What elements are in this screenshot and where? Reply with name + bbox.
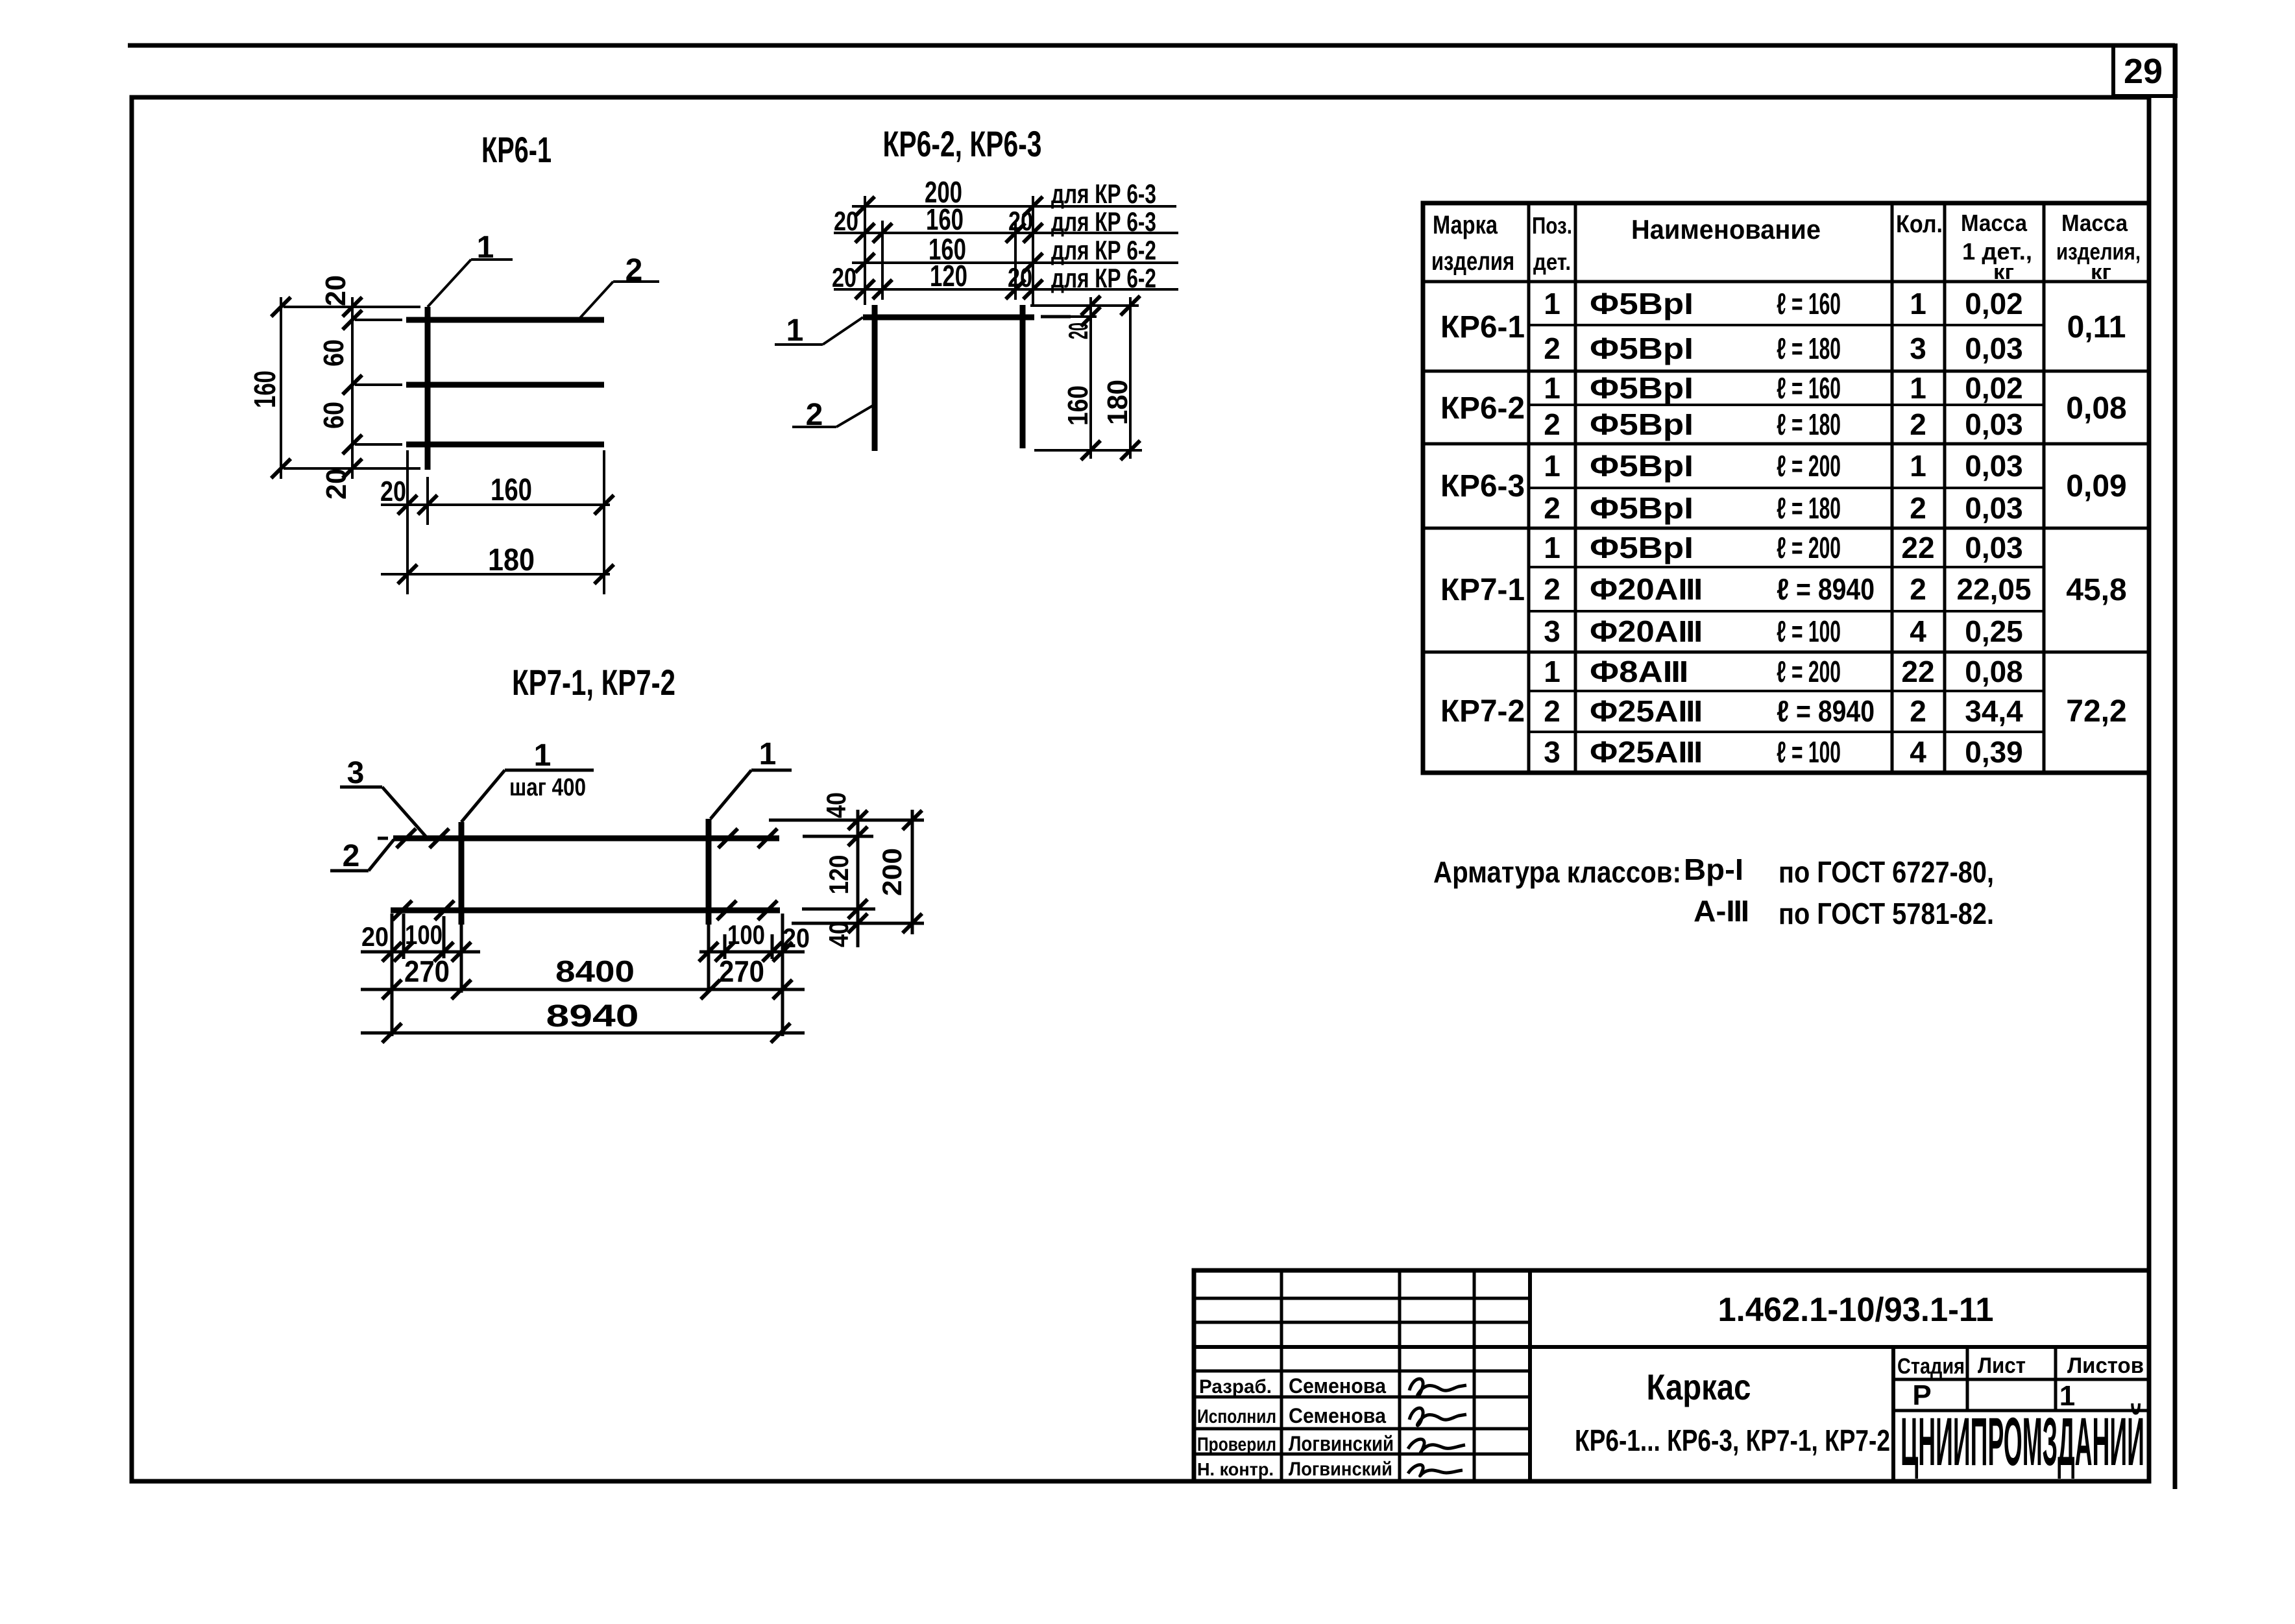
svg-text:Ф25АIII: Ф25АIII <box>1590 735 1701 769</box>
svg-text:0,39: 0,39 <box>1965 735 2023 769</box>
KR6-23 dim extension verticals <box>864 196 866 305</box>
KR6-23 bar pos.2 left vertical wire <box>872 305 878 451</box>
svg-text:0,03: 0,03 <box>1965 449 2023 483</box>
svg-text:0,03: 0,03 <box>1965 407 2023 441</box>
svg-text:2: 2 <box>343 839 360 873</box>
svg-text:0,25: 0,25 <box>1965 614 2023 648</box>
title block vertical lines <box>1280 1270 1283 1481</box>
sheet outer right border line <box>2173 45 2178 1489</box>
svg-text:Наименование: Наименование <box>1631 214 1821 245</box>
svg-text:кг: кг <box>2091 260 2111 284</box>
svg-text:60: 60 <box>318 402 350 429</box>
KR7 top bar pos.2 <box>378 837 388 840</box>
svg-text:2: 2 <box>1910 694 1926 728</box>
svg-text:40: 40 <box>823 921 854 947</box>
svg-text:Ф5ВрI: Ф5ВрI <box>1590 332 1694 365</box>
svg-text:3: 3 <box>347 756 365 790</box>
svg-text:20: 20 <box>320 275 352 306</box>
svg-text:270: 270 <box>404 954 450 988</box>
svg-text:Ф5ВрI: Ф5ВрI <box>1590 407 1694 441</box>
svg-text:ℓ = 160: ℓ = 160 <box>1777 287 1841 321</box>
svg-text:200: 200 <box>877 848 907 896</box>
svg-text:180: 180 <box>1102 380 1134 425</box>
svg-text:1: 1 <box>1544 655 1560 688</box>
KR7 right stirrup pos.1 <box>706 819 712 925</box>
svg-text:20: 20 <box>1063 322 1093 339</box>
svg-text:Листов: Листов <box>2067 1353 2144 1378</box>
svg-text:0,03: 0,03 <box>1965 531 2023 564</box>
svg-text:2: 2 <box>1544 491 1560 525</box>
svg-text:0,09: 0,09 <box>2066 469 2126 503</box>
KR6-23 dim row 20/120/20 <box>834 288 1178 291</box>
svg-text:Лист: Лист <box>1978 1353 2026 1378</box>
svg-text:ℓ = 200: ℓ = 200 <box>1777 531 1841 564</box>
svg-text:0,11: 0,11 <box>2067 310 2126 345</box>
svg-text:Разраб.: Разраб. <box>1199 1376 1272 1398</box>
svg-text:Ф5ВрI: Ф5ВрI <box>1590 449 1694 483</box>
svg-text:20: 20 <box>361 921 389 952</box>
svg-text:А-III: А-III <box>1694 894 1748 928</box>
svg-text:2: 2 <box>1544 407 1560 441</box>
svg-text:ЦНИИПРОМЗДАНИЙ: ЦНИИПРОМЗДАНИЙ <box>1900 1402 2144 1479</box>
svg-text:Ф20АIII: Ф20АIII <box>1590 572 1701 606</box>
drawing frame <box>132 97 2149 1481</box>
svg-text:ℓ = 8940: ℓ = 8940 <box>1777 694 1875 728</box>
svg-text:4: 4 <box>1910 735 1926 769</box>
svg-text:для КР 6-2: для КР 6-2 <box>1051 263 1156 293</box>
svg-text:20: 20 <box>380 476 406 507</box>
sheet top border line <box>128 43 2175 48</box>
title block main horizontal divider <box>1194 1345 2149 1349</box>
svg-text:1: 1 <box>1544 371 1560 405</box>
svg-text:2: 2 <box>1544 694 1560 728</box>
svg-text:120: 120 <box>823 855 854 895</box>
svg-text:Ф5ВрI: Ф5ВрI <box>1590 371 1694 405</box>
svg-text:100: 100 <box>727 919 765 950</box>
KR6-23 leader 2 line <box>792 426 836 428</box>
svg-text:2: 2 <box>1544 332 1560 365</box>
KR7 chain dimension 40/120/40 vertical <box>856 810 860 947</box>
svg-text:180: 180 <box>488 543 535 577</box>
title block stage header lines <box>1893 1378 2149 1381</box>
svg-text:0,08: 0,08 <box>1965 655 2023 688</box>
signature Proveril <box>1408 1439 1465 1452</box>
svg-text:ℓ = 8940: ℓ = 8940 <box>1777 572 1875 606</box>
svg-text:ℓ = 100: ℓ = 100 <box>1777 614 1841 648</box>
KR7 overall dimension 8940 horizontal <box>361 1032 805 1035</box>
svg-text:3: 3 <box>1544 614 1560 648</box>
KR6-1 overall dimension 160 vertical <box>280 297 282 479</box>
svg-text:20: 20 <box>1008 206 1033 236</box>
table sub-row lines <box>1529 324 2044 326</box>
svg-text:Ф25АIII: Ф25АIII <box>1590 694 1701 728</box>
svg-text:270: 270 <box>719 954 764 988</box>
KR6-23 right extension lines <box>1030 304 1139 307</box>
table column lines <box>1527 203 1531 773</box>
svg-text:8940: 8940 <box>546 999 639 1034</box>
KR6-23 bar pos.1 horizontal wire <box>863 315 1034 321</box>
svg-text:КР7-2: КР7-2 <box>1440 694 1525 729</box>
KR6-23 dim row 200 <box>852 205 1176 208</box>
KR7 bottom extension lines <box>391 914 394 1036</box>
title block outer border <box>1194 1270 2149 1481</box>
svg-text:шаг 400: шаг 400 <box>509 774 586 801</box>
svg-text:1: 1 <box>1544 531 1560 564</box>
svg-text:1: 1 <box>786 313 804 348</box>
svg-text:ℓ = 180: ℓ = 180 <box>1777 407 1841 441</box>
KR6-1 dimension 20/160 horizontal <box>381 503 610 506</box>
svg-text:Ф8АIII: Ф8АIII <box>1590 655 1687 688</box>
svg-text:Арматура классов:: Арматура классов: <box>1433 855 1681 889</box>
KR7 dimension 270/8400/270 horizontal <box>361 988 805 991</box>
KR6-23 leader 1 line <box>775 343 823 346</box>
svg-text:0,03: 0,03 <box>1965 491 2023 525</box>
svg-text:0,08: 0,08 <box>2066 391 2126 426</box>
svg-text:160: 160 <box>926 202 964 236</box>
svg-text:2: 2 <box>1544 572 1560 606</box>
KR7 left leader 1 line <box>505 769 594 772</box>
KR7 bottom bar pos.2 <box>391 908 780 914</box>
KR6-23 bar pos.2 right vertical wire <box>1020 305 1026 448</box>
KR6-1 leader 2 line <box>579 282 613 319</box>
svg-text:20: 20 <box>834 206 858 236</box>
svg-text:по ГОСТ 5781-82.: по ГОСТ 5781-82. <box>1779 897 1994 930</box>
svg-text:0,02: 0,02 <box>1965 371 2023 405</box>
svg-text:КР7-1, КР7-2: КР7-1, КР7-2 <box>512 662 675 703</box>
svg-text:Ф5ВрI: Ф5ВрI <box>1590 531 1694 564</box>
svg-text:0,02: 0,02 <box>1965 287 2023 321</box>
table outer border <box>1423 203 2149 773</box>
svg-text:КР6-2, КР6-3: КР6-2, КР6-3 <box>883 123 1042 164</box>
signature Razrab <box>1409 1379 1466 1396</box>
svg-text:Поз.: Поз. <box>1532 212 1572 239</box>
svg-text:Ф5ВрI: Ф5ВрI <box>1590 287 1694 321</box>
KR6-1 dimension 180 horizontal <box>381 573 610 576</box>
KR7 dimension 20/100 + 100/20 horizontal <box>361 951 480 954</box>
svg-text:40: 40 <box>821 792 851 818</box>
svg-text:160: 160 <box>491 473 532 507</box>
svg-text:1: 1 <box>1910 287 1926 321</box>
svg-text:Масса: Масса <box>2061 210 2128 236</box>
svg-text:1.462.1-10/93.1-11: 1.462.1-10/93.1-11 <box>1718 1291 1994 1329</box>
KR6-23 dim row 20/160/20 <box>834 232 1178 234</box>
svg-text:0,03: 0,03 <box>1965 332 2023 365</box>
svg-text:дет.: дет. <box>1533 248 1571 275</box>
svg-text:34,4: 34,4 <box>1965 694 2023 728</box>
svg-text:кг: кг <box>1993 260 2014 284</box>
svg-text:КР6-1: КР6-1 <box>1440 310 1525 345</box>
svg-text:Н. контр.: Н. контр. <box>1197 1459 1274 1479</box>
svg-text:КР6-1... КР6-3, КР7-1, КР7-2: КР6-1... КР6-3, КР7-1, КР7-2 <box>1575 1424 1890 1457</box>
svg-text:29: 29 <box>2124 52 2163 91</box>
svg-text:2: 2 <box>1910 572 1926 606</box>
svg-text:ℓ = 160: ℓ = 160 <box>1777 371 1841 405</box>
svg-text:100: 100 <box>405 919 443 950</box>
svg-text:160: 160 <box>1062 385 1094 426</box>
KR6-1 bars pos.2 horizontal wires <box>406 317 604 323</box>
svg-text:60: 60 <box>318 339 350 367</box>
svg-text:1: 1 <box>534 738 552 773</box>
KR6-1 bottom extension lines <box>406 450 409 594</box>
svg-text:Ф5ВрI: Ф5ВрI <box>1590 491 1694 525</box>
sheet number box <box>2113 45 2176 96</box>
KR7 left stirrup pos.1 <box>459 822 465 925</box>
title block left part row lines <box>1194 1297 1530 1300</box>
svg-text:1: 1 <box>759 737 777 771</box>
svg-text:для КР 6-3: для КР 6-3 <box>1051 178 1156 209</box>
svg-text:КР6-2: КР6-2 <box>1440 391 1525 426</box>
KR6-23 overall dimension 180 vertical <box>1129 297 1132 459</box>
KR6-1 bar pos.1 vertical wire <box>425 307 431 470</box>
svg-text:22: 22 <box>1901 655 1934 688</box>
svg-text:Марка: Марка <box>1433 211 1498 239</box>
svg-text:20: 20 <box>321 468 352 500</box>
svg-text:1: 1 <box>1544 449 1560 483</box>
svg-text:2: 2 <box>1910 491 1926 525</box>
svg-text:22,05: 22,05 <box>1956 572 2031 606</box>
svg-text:2: 2 <box>1910 407 1926 441</box>
svg-text:120: 120 <box>930 259 967 293</box>
svg-text:Логвинский: Логвинский <box>1289 1432 1394 1455</box>
svg-text:ℓ = 100: ℓ = 100 <box>1777 735 1841 769</box>
svg-text:ℓ = 200: ℓ = 200 <box>1777 449 1841 483</box>
svg-text:Проверил: Проверил <box>1197 1434 1276 1455</box>
svg-text:Исполнил: Исполнил <box>1197 1406 1276 1427</box>
svg-text:КР6-1: КР6-1 <box>481 129 552 170</box>
svg-text:4: 4 <box>1910 614 1926 648</box>
svg-text:20: 20 <box>832 262 856 293</box>
KR6-23 chain dimension 20/160 vertical <box>1089 297 1092 459</box>
svg-text:1: 1 <box>1910 449 1926 483</box>
svg-text:для КР 6-2: для КР 6-2 <box>1051 235 1156 265</box>
KR7 overall dimension 200 vertical <box>911 810 914 934</box>
KR7 right extension lines <box>769 819 924 822</box>
KR7 leader 2 line <box>330 869 369 873</box>
signature Nkontr <box>1408 1465 1463 1476</box>
svg-text:ℓ = 180: ℓ = 180 <box>1777 332 1841 365</box>
svg-text:Каркас: Каркас <box>1647 1366 1751 1407</box>
svg-text:КР7-1: КР7-1 <box>1440 573 1525 607</box>
svg-text:изделия: изделия <box>1431 247 1514 276</box>
svg-text:Вр-I: Вр-I <box>1684 853 1743 886</box>
svg-text:1: 1 <box>1544 287 1560 321</box>
svg-text:72,2: 72,2 <box>2066 694 2126 729</box>
KR7 right leader 1 line <box>751 769 792 772</box>
svg-text:1: 1 <box>1910 371 1926 405</box>
svg-text:Стадия: Стадия <box>1897 1354 1965 1379</box>
svg-text:Семенова: Семенова <box>1289 1404 1386 1427</box>
svg-text:3: 3 <box>1544 735 1560 769</box>
svg-text:20: 20 <box>1008 262 1032 293</box>
signature Ispolnil <box>1409 1408 1466 1425</box>
svg-text:3: 3 <box>1910 332 1926 365</box>
svg-text:45,8: 45,8 <box>2066 573 2126 607</box>
svg-text:Логвинский: Логвинский <box>1289 1459 1392 1480</box>
svg-text:160: 160 <box>248 370 282 408</box>
svg-text:20: 20 <box>783 923 810 953</box>
KR7 leader 3 line <box>340 786 382 789</box>
svg-text:Семенова: Семенова <box>1289 1374 1386 1398</box>
KR6-1 chain dimension line 20/60/60/20 <box>351 297 354 479</box>
table block separator rows <box>1423 280 2149 284</box>
svg-text:8400: 8400 <box>555 954 635 988</box>
KR6-1 leader 1 line <box>471 258 513 261</box>
svg-text:КР6-3: КР6-3 <box>1440 469 1525 503</box>
svg-text:Ф20АIII: Ф20АIII <box>1590 614 1701 648</box>
KR6-1 extension lines <box>284 306 420 308</box>
KR6-23 dim row 160 <box>852 261 1178 264</box>
svg-text:для КР 6-3: для КР 6-3 <box>1051 206 1156 237</box>
svg-text:ℓ = 180: ℓ = 180 <box>1777 491 1841 525</box>
svg-text:Кол.: Кол. <box>1896 211 1943 238</box>
svg-text:Масса: Масса <box>1961 210 2028 236</box>
svg-text:22: 22 <box>1901 531 1934 564</box>
svg-text:ℓ = 200: ℓ = 200 <box>1777 655 1841 688</box>
svg-text:по ГОСТ 6727-80,: по ГОСТ 6727-80, <box>1779 855 1994 889</box>
